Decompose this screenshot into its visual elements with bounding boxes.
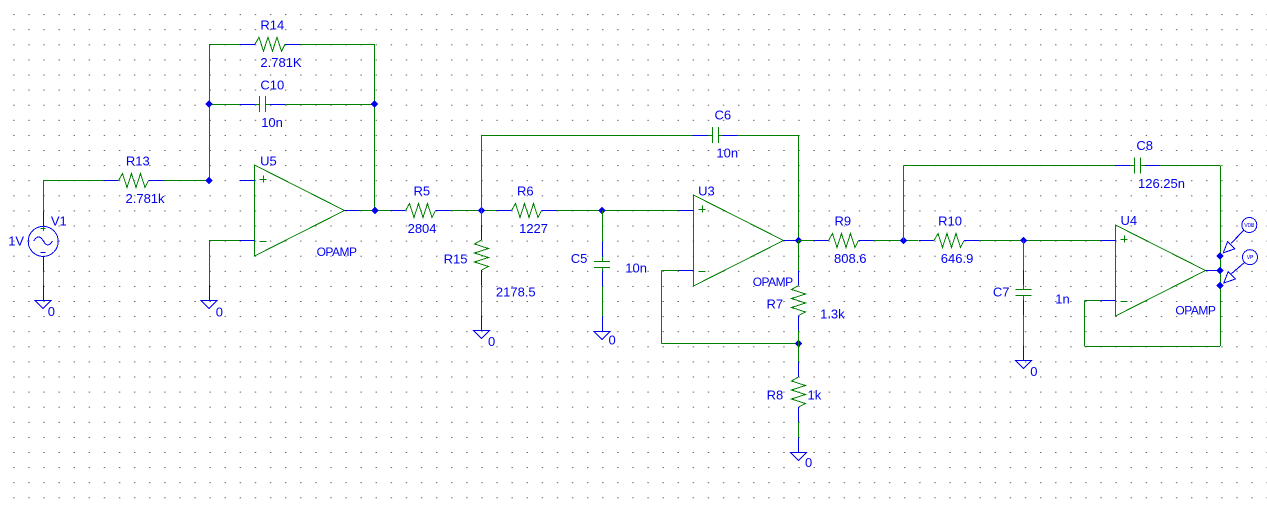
junction C10 right: [371, 101, 378, 108]
svg-text:10n: 10n: [261, 115, 283, 130]
capacitor C6: [693, 127, 738, 143]
svg-text:C6: C6: [715, 108, 732, 123]
wire U3 output to R7: [798, 241, 800, 271]
svg-text:1k: 1k: [808, 388, 822, 403]
svg-text:1n: 1n: [1055, 292, 1069, 307]
wire U3 minus loop vertical: [661, 271, 663, 344]
wire V1 to ground: [43, 271, 45, 285]
svg-text:VDB: VDB: [1244, 223, 1255, 229]
junction feedback attach: [1216, 282, 1223, 289]
svg-text:2178.5: 2178.5: [496, 284, 536, 299]
svg-text:R10: R10: [938, 214, 962, 229]
svg-text:0: 0: [216, 304, 223, 319]
svg-text:OPAMP: OPAMP: [317, 245, 357, 259]
svg-text:R8: R8: [767, 388, 784, 403]
wire U4 minus loop bottom: [1084, 346, 1220, 348]
svg-text:R9: R9: [835, 214, 852, 229]
wire R13 to node A: [164, 180, 210, 182]
svg-text:10n: 10n: [716, 145, 738, 160]
svg-text:V1: V1: [51, 213, 67, 228]
svg-text:808.6: 808.6: [834, 251, 867, 266]
probe marker VP: [1224, 250, 1258, 283]
capacitor C10: [240, 96, 285, 112]
svg-text:U5: U5: [260, 153, 277, 168]
wire R7 to node: [798, 331, 800, 344]
wire to R14 left: [209, 44, 240, 46]
wire V1 vertical: [43, 180, 45, 212]
svg-text:U3: U3: [698, 183, 715, 198]
junction probe VDB attach: [1216, 252, 1223, 259]
svg-text:10n: 10n: [625, 261, 647, 276]
svg-text:2804: 2804: [408, 221, 437, 236]
wire R10 to U4 plus: [979, 240, 1101, 242]
wire C8 to U4 output vertical: [1220, 166, 1222, 347]
wire R14 right: [300, 44, 375, 46]
wire R5 to R6: [451, 210, 497, 212]
junction node A / C10 left: [205, 101, 212, 108]
wire C8 left vertical: [903, 166, 905, 241]
svg-text:C7: C7: [993, 285, 1010, 300]
wire C7 to ground: [1023, 315, 1025, 346]
svg-text:C8: C8: [1136, 138, 1153, 153]
wire node to C5: [602, 211, 604, 242]
svg-text:R5: R5: [414, 184, 431, 199]
wire C8 right: [1160, 165, 1220, 167]
ground V1 ground: [35, 286, 51, 309]
wire C10 right: [285, 104, 375, 106]
svg-text:1.3k: 1.3k: [820, 307, 845, 322]
wire node to R8: [798, 344, 800, 363]
capacitor C7: [1016, 270, 1032, 315]
junction U4 output node: [1216, 267, 1223, 274]
svg-text:0: 0: [805, 455, 812, 470]
wire U5 minus: [209, 240, 240, 242]
svg-text:R15: R15: [444, 251, 468, 266]
wire R9 to R10: [874, 240, 919, 242]
svg-text:1227: 1227: [519, 221, 548, 236]
wire U3 minus: [662, 270, 679, 272]
resistor R7: [792, 271, 806, 331]
wire to C8: [903, 165, 1115, 167]
svg-text:2.781K: 2.781K: [260, 55, 302, 70]
svg-text:1V: 1V: [8, 233, 24, 248]
resistor R6: [497, 204, 557, 218]
junction node A: [205, 177, 212, 184]
wire U4 minus loop vertical: [1084, 301, 1086, 347]
wire U5 minus to ground: [209, 241, 211, 286]
svg-text:0: 0: [488, 334, 495, 349]
svg-text:126.25n: 126.25n: [1138, 176, 1185, 191]
wire U4 minus: [1084, 300, 1100, 302]
wire R8 to ground: [798, 422, 800, 438]
op-amp U3: [679, 195, 799, 286]
ground U5 minus ground: [201, 286, 217, 309]
svg-text:C5: C5: [571, 251, 588, 266]
wire feedback right vertical: [374, 44, 376, 210]
resistor R5: [391, 204, 451, 218]
ground R15 ground: [474, 316, 490, 339]
svg-text:646.9: 646.9: [941, 251, 974, 266]
svg-text:U4: U4: [1121, 213, 1138, 228]
wire to C6: [482, 135, 693, 137]
svg-text:0: 0: [1030, 364, 1037, 379]
wire node to C7: [1023, 241, 1025, 271]
svg-text:0: 0: [48, 304, 55, 319]
wire R15 to ground: [481, 285, 483, 316]
junction C7 node: [1020, 237, 1027, 244]
junction node C5: [598, 207, 605, 214]
svg-text:OPAMP: OPAMP: [753, 275, 793, 289]
capacitor C8: [1115, 158, 1160, 174]
junction node B: [478, 207, 485, 214]
resistor R15: [475, 225, 489, 285]
svg-text:R7: R7: [767, 296, 784, 311]
ground C5 ground: [594, 317, 610, 340]
junction R7 R8 node: [795, 340, 802, 347]
voltage source V1: [28, 212, 58, 272]
wire V1 to R13: [43, 180, 103, 182]
svg-text:OPAMP: OPAMP: [1175, 304, 1215, 318]
svg-text:0: 0: [609, 333, 616, 348]
wire node B to R15: [481, 211, 483, 226]
wire C10 left: [209, 104, 240, 106]
wire U5 output: [360, 210, 391, 212]
probe marker VDB: [1223, 218, 1257, 253]
resistor R13: [104, 174, 164, 188]
junction C8 left node: [900, 237, 907, 244]
junction U5 output node: [371, 207, 378, 214]
wire C5 to ground: [602, 287, 604, 317]
wire feedback left vertical: [209, 44, 211, 180]
op-amp U4: [1101, 225, 1221, 316]
resistor R8: [792, 362, 806, 422]
svg-text:C10: C10: [260, 78, 284, 93]
wire U3 minus loop bottom: [662, 343, 799, 345]
resistor R9: [814, 234, 874, 248]
op-amp U5: [240, 165, 360, 256]
svg-text:VP: VP: [1247, 255, 1254, 261]
wire C6 right: [738, 135, 799, 137]
wire C6 to U3 output: [798, 135, 800, 241]
junction U3 output node: [795, 237, 802, 244]
wire U3 output to R9: [799, 240, 814, 242]
ground C7 ground: [1016, 346, 1032, 369]
svg-text:R6: R6: [517, 184, 534, 199]
capacitor C5: [594, 242, 610, 287]
wire R6 to U3 plus: [557, 210, 679, 212]
resistor R14: [240, 37, 300, 51]
ground R8 ground: [791, 438, 807, 461]
svg-text:R13: R13: [126, 154, 150, 169]
svg-text:2.781k: 2.781k: [126, 191, 166, 206]
resistor R10: [919, 234, 979, 248]
svg-text:R14: R14: [260, 18, 284, 33]
wire C6 left vertical: [481, 135, 483, 211]
